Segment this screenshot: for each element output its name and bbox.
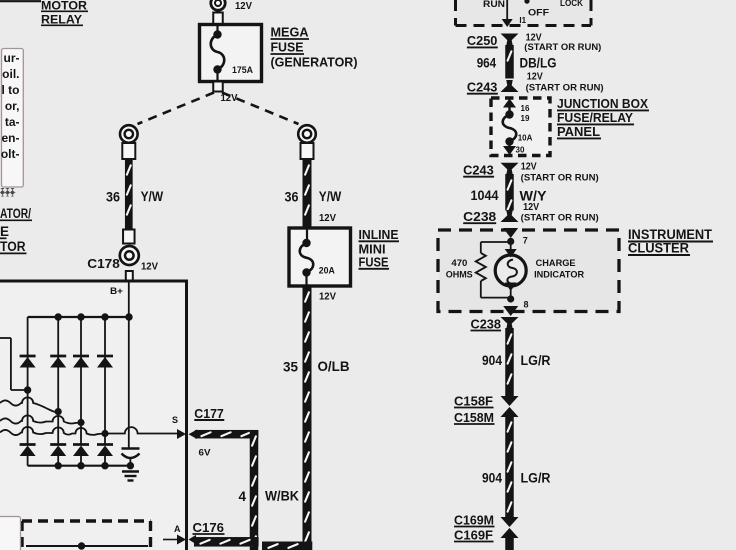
- svg-text:16: 16: [521, 104, 530, 113]
- svg-text:LOCK: LOCK: [560, 0, 583, 9]
- svg-text:964: 964: [477, 55, 497, 70]
- svg-text:CLUSTER: CLUSTER: [628, 241, 689, 256]
- svg-text:FUSE/RELAY: FUSE/RELAY: [557, 110, 633, 125]
- svg-text:E: E: [0, 224, 9, 239]
- svg-text:(START OR RUN): (START OR RUN): [526, 82, 604, 92]
- svg-text:C243: C243: [463, 164, 494, 178]
- svg-text:RUN: RUN: [483, 0, 505, 10]
- svg-text:olt-: olt-: [1, 147, 20, 161]
- svg-text:PANEL: PANEL: [557, 124, 600, 139]
- svg-text:36: 36: [285, 190, 299, 205]
- svg-text:FUSE: FUSE: [271, 40, 304, 55]
- svg-text:904: 904: [482, 471, 502, 486]
- svg-text:O/LB: O/LB: [318, 359, 350, 374]
- svg-text:(START OR RUN): (START OR RUN): [524, 42, 601, 52]
- svg-text:A: A: [174, 524, 181, 534]
- svg-text:7: 7: [523, 235, 528, 245]
- svg-text:470: 470: [451, 258, 467, 269]
- svg-text:(GENERATOR): (GENERATOR): [271, 55, 358, 70]
- svg-text:TOR: TOR: [0, 239, 26, 254]
- svg-text:C176: C176: [193, 521, 225, 535]
- svg-text:C238: C238: [471, 318, 502, 332]
- svg-text:12V: 12V: [141, 262, 158, 273]
- svg-text:19: 19: [521, 114, 530, 123]
- svg-text:C243: C243: [467, 81, 498, 95]
- svg-text:36: 36: [106, 190, 120, 205]
- svg-text:OFF: OFF: [528, 8, 549, 19]
- svg-text:12V: 12V: [235, 1, 252, 12]
- svg-text:C158M: C158M: [454, 411, 494, 425]
- svg-text:175A: 175A: [232, 65, 253, 76]
- svg-text:1044: 1044: [471, 188, 499, 203]
- svg-text:INLINE: INLINE: [359, 228, 399, 242]
- svg-text:(START OR RUN): (START OR RUN): [521, 172, 599, 182]
- svg-text:or,: or,: [5, 99, 20, 113]
- svg-text:ta-: ta-: [5, 115, 20, 129]
- svg-text:C158F: C158F: [454, 395, 493, 409]
- svg-text:Y/W: Y/W: [319, 189, 342, 204]
- svg-text:20A: 20A: [319, 266, 335, 277]
- svg-text:12V: 12V: [319, 292, 336, 303]
- svg-text:l to: l to: [2, 83, 20, 97]
- svg-text:MINI: MINI: [359, 243, 386, 257]
- svg-text:C169M: C169M: [454, 514, 494, 528]
- svg-text:W/BK: W/BK: [265, 489, 299, 504]
- svg-text:4: 4: [239, 489, 247, 504]
- svg-text:10A: 10A: [518, 134, 533, 143]
- svg-text:C177: C177: [194, 407, 224, 421]
- svg-text:12V: 12V: [319, 213, 336, 224]
- svg-text:LG/R: LG/R: [521, 471, 551, 486]
- svg-text:C178: C178: [87, 257, 120, 271]
- svg-text:DB/LG: DB/LG: [520, 56, 557, 71]
- svg-text:I1: I1: [519, 16, 526, 25]
- svg-text:C169F: C169F: [454, 529, 493, 543]
- svg-text:C238: C238: [463, 210, 496, 224]
- svg-text:OHMS: OHMS: [446, 270, 473, 281]
- svg-text:8: 8: [524, 300, 529, 310]
- svg-text:JUNCTION BOX: JUNCTION BOX: [557, 96, 648, 111]
- svg-text:30: 30: [516, 146, 525, 155]
- svg-text:12V: 12V: [527, 71, 543, 82]
- svg-text:MEGA: MEGA: [271, 25, 310, 40]
- svg-text:INDICATOR: INDICATOR: [534, 270, 584, 281]
- svg-text:LG/R: LG/R: [521, 353, 551, 368]
- svg-text:6V: 6V: [199, 448, 211, 458]
- svg-text:904: 904: [482, 353, 502, 368]
- svg-text:B+: B+: [110, 286, 123, 296]
- svg-text:35: 35: [283, 360, 298, 375]
- svg-text:ATOR/: ATOR/: [0, 206, 31, 221]
- svg-text:C250: C250: [467, 34, 498, 48]
- svg-text:ur-: ur-: [4, 51, 20, 65]
- svg-text:CHARGE: CHARGE: [536, 258, 576, 269]
- svg-text:en-: en-: [2, 131, 20, 145]
- svg-text:oil.: oil.: [2, 67, 19, 81]
- svg-text:(START OR RUN): (START OR RUN): [521, 212, 599, 222]
- svg-text:12V: 12V: [521, 162, 537, 173]
- svg-text:S: S: [172, 415, 178, 425]
- svg-text:Y/W: Y/W: [141, 189, 164, 204]
- svg-text:FUSE: FUSE: [359, 256, 389, 270]
